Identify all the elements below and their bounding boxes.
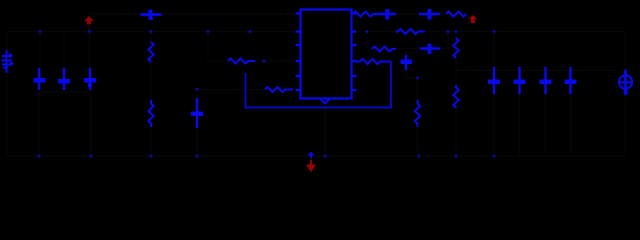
pin stub left 5 [296, 75, 301, 77]
pin stub left 1 [296, 13, 301, 15]
wire R5 to IC pin [255, 60, 296, 62]
capacitor C8 (x=406 vertical) [401, 55, 413, 70]
wire row A gap [396, 13, 446, 15]
node B1 [366, 30, 369, 33]
node B2 [396, 30, 399, 33]
node B3 [447, 30, 450, 33]
wire +V1 stem [88, 24, 90, 32]
node G6 [418, 155, 421, 158]
capacitor C9 (row C series) [420, 44, 440, 55]
wire node 494 drop [493, 32, 495, 157]
capacitor C5 (top, series) [141, 10, 162, 21]
wire +V feed y=14 [90, 13, 142, 15]
resistor R6 (horizontal y=90) [265, 87, 293, 92]
resistor R1 (vertical x=151) [148, 42, 153, 62]
resistor R7 (row B) [398, 29, 425, 34]
node G5 [324, 155, 327, 158]
wire riser x=91 to bus [90, 92, 92, 156]
node G8 [493, 155, 496, 158]
wire cap C1 drop [39, 32, 41, 69]
wire node367 drop to row C [367, 32, 373, 50]
wire IC bottom pin to bus [324, 103, 326, 156]
pin stub left 6 [296, 89, 301, 91]
wire cap C2 drop [63, 32, 65, 69]
connector J1 (input jack) [1, 50, 13, 73]
resistor R8 (row C) [372, 46, 396, 51]
wire output top rail y=70.5 [456, 70, 620, 72]
capacitor C11 [514, 67, 526, 94]
wire caps bottom tie y=92 [39, 91, 90, 93]
node G1 [38, 155, 41, 158]
pin stub right 4 [352, 60, 357, 62]
node B4 [455, 30, 458, 33]
wire pin to row C [356, 44, 362, 46]
wire from node 208 down to R5 [208, 32, 222, 62]
pin stub right 3 [352, 44, 357, 46]
wire top rail y=31.5 from jack to IC [7, 31, 300, 33]
resistor R9 (row D from pin) [356, 59, 391, 64]
wire column x=456 [455, 32, 457, 157]
node D78 [416, 77, 419, 80]
node G7 [455, 155, 458, 158]
wire riser x=39 to bus [38, 92, 40, 156]
node C89 [196, 88, 199, 91]
ground symbol GND [306, 152, 316, 173]
IC U1 [301, 10, 352, 99]
wire row C cap link [396, 32, 448, 49]
capacitor C12 [540, 67, 552, 94]
connector J2 (output speaker) [619, 70, 632, 96]
wire cap C3 drop [89, 32, 91, 69]
wire top cap to IC pin1 [158, 13, 296, 15]
pin stub bottom [321, 99, 330, 104]
pin stub left 2 [296, 31, 301, 33]
resistor R12 (x=456 lower vertical) [453, 85, 458, 108]
wire cap C8 column x=406 [406, 49, 418, 78]
capacitor C3 [84, 68, 96, 90]
capacitor C7 (row A series 2) [419, 9, 440, 20]
node A1 [39, 30, 42, 33]
wire cap C12 riser [545, 94, 547, 156]
pin stub left 4 [296, 60, 301, 62]
resistor R3 (row A from pin) [353, 11, 376, 16]
wire cap C13 riser [570, 94, 572, 156]
capacitor C6 (row A series) [376, 9, 396, 20]
wire node 197 to R6 [197, 89, 265, 91]
wire cap C11 riser [519, 94, 521, 156]
pin stub right 2 [352, 31, 357, 33]
wire cap C4 column x=197 [196, 89, 198, 156]
node G3 [150, 155, 153, 158]
node B5 [493, 30, 496, 33]
capacitor C13 [565, 67, 577, 94]
wire jack riser [6, 32, 8, 157]
power +V arrow P2 [469, 15, 478, 23]
wire bright feedback loop [246, 62, 392, 108]
capacitor C1 [34, 68, 46, 90]
wire speaker column x=625.5 [625, 32, 627, 157]
pin stub left 3 [296, 44, 301, 46]
pin stub right 1 [352, 13, 357, 15]
ground bus y=156 [7, 155, 626, 157]
resistor R4 (row A right) [446, 11, 466, 16]
node A2 [88, 30, 91, 33]
capacitor C2 [58, 68, 70, 90]
resistor R2 (vertical x=151 lower) [148, 100, 153, 127]
node A5 [249, 30, 252, 33]
wire row B right y=31.5 [356, 31, 626, 33]
resistor R11 (x=456 upper vertical) [453, 38, 458, 58]
node dots row y=31.5 [38, 30, 496, 157]
node G2 [90, 155, 93, 158]
wire column x=151 [150, 32, 152, 157]
resistor R5 (horizontal y=61) [228, 58, 255, 63]
pin stub right 6 [352, 89, 357, 91]
node A4 [207, 30, 210, 33]
node C61 [263, 60, 266, 63]
wire R10 column x=417.5 [417, 78, 419, 156]
capacitor C4 (x=197) [191, 98, 203, 128]
pin stub right 5 [352, 75, 357, 77]
capacitor C10 [488, 67, 500, 94]
node A3 [150, 30, 153, 33]
resistor R10 (x=417.5 vertical) [415, 100, 420, 127]
node G4 [196, 155, 199, 158]
power +V arrow P1 [84, 16, 94, 25]
